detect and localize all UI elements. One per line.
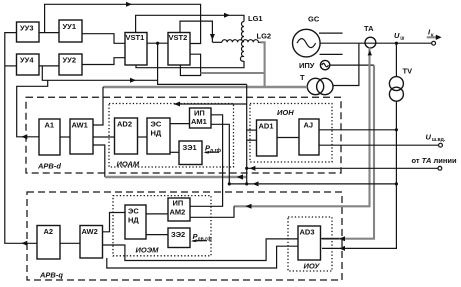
wire AJ out2 to terminal Ush.vd [319,133,446,148]
svg-text:AJ: AJ [304,121,314,130]
svg-text:УУ2: УУ2 [63,56,77,65]
inductor LG1 [240,14,262,61]
svg-text:TV: TV [403,67,413,76]
svg-text:ИОАМ: ИОАМ [117,160,140,169]
block AD2 [115,118,138,154]
block VST1 [125,33,147,66]
dotted box IOAM [109,104,234,169]
wire IOAM riser [245,84,248,183]
label P dv.gf [191,232,212,243]
wire AJ out1 to TV line [319,128,398,131]
wire AM1 riser A to AM2 [190,115,223,207]
node Ush [394,31,404,45]
current transformer TA [364,24,376,48]
wire VST1 to VST2 [147,42,168,45]
wire A1 to AW1 [60,136,70,138]
svg-text:УУ1: УУ1 [63,22,77,31]
svg-text:УУ4: УУ4 [20,56,34,65]
arrow into A2 [21,241,27,246]
transformer T [300,73,333,95]
svg-text:ш.вд.: ш.вд. [432,137,446,143]
svg-text:AW1: AW1 [72,121,88,130]
block UU2 [59,54,82,75]
wire T primary bus (gray) [103,86,307,89]
wire AD2 to ESND [138,136,148,138]
svg-text:УУ3: УУ3 [20,24,34,33]
wire VST2 top to LG2 [180,21,222,42]
wire TA secondary (gray) [234,48,372,207]
svg-text:от ТА линии: от ТА линии [412,156,457,165]
wire left bus [5,33,37,244]
svg-text:ЗЭ2: ЗЭ2 [171,230,185,239]
block ZE1 [179,141,202,165]
svg-text:ЭС: ЭС [128,207,139,216]
svg-text:ИП: ИП [173,199,184,208]
wire UU4 branch down [42,66,157,83]
GC stator leads [319,33,343,54]
svg-text:LG1: LG1 [248,14,263,23]
wire left bus to UU4, UU4 to UU2 [5,65,59,67]
block ZE2 [168,228,190,248]
svg-text:дв.гф: дв.гф [198,236,213,243]
wire ot TA linii [247,156,457,171]
wire junction down to T bus [158,43,247,84]
svg-text:AD1: AD1 [259,122,274,131]
arrow TA wire to AD3 [321,236,346,241]
svg-text:ТА: ТА [364,24,374,33]
svg-text:ИОЭМ: ИОЭМ [136,246,160,255]
wire VST1 top to LG1 [136,13,244,33]
wire LG2 right down (gray) [261,42,265,87]
wire IPU output [330,64,374,66]
svg-text:АМ2: АМ2 [170,208,186,217]
wire AW1 to AD2 [93,136,115,138]
block IP-AM2 [168,198,190,221]
wire TV riser [322,43,396,251]
label P d.gf [204,144,222,155]
svg-text:Т: Т [300,73,305,82]
wire A2 to AW2 [60,242,80,244]
dotted box ION [250,104,332,163]
label Ik with arrow [427,28,442,41]
wire riser to AD1 inputs [247,130,257,140]
wire AW1 riser to T bus [93,87,103,125]
svg-text:U: U [426,133,432,142]
svg-text:А1: А1 [45,121,55,130]
wire AW2 up to ESND2 [103,213,126,232]
block UU1 [59,20,82,42]
svg-text:А2: А2 [44,227,54,236]
svg-text:LG2: LG2 [257,32,272,41]
pilot exciter IPU [299,60,330,70]
svg-text:U: U [394,31,400,40]
block AJ [299,119,319,155]
svg-text:ИПУ: ИПУ [299,61,315,70]
wire VST2 right lower loop [180,54,200,75]
voltage transformer TV [389,67,412,102]
wire top feed to VST2 [45,2,201,44]
wire ESND to AM1 [170,123,190,125]
block VST2 [168,33,190,66]
dashed box ARV-q [27,192,342,280]
wire UU2 to VST1 [82,58,125,65]
svg-text:ИОУ: ИОУ [304,262,321,271]
wire AW1 lower pin to gray feedback bus [93,145,247,180]
wire AW2 mid to AD3 in1 [103,239,299,261]
svg-text:АМ1: АМ1 [191,117,207,126]
wire main generator bus [320,41,435,45]
dotted box IOEM [113,196,211,256]
svg-text:ЭС: ЭС [151,120,162,129]
svg-text:GC: GC [308,15,320,24]
wire TV secondary to AM1 [228,181,398,186]
dashed box ARV-d [26,97,341,173]
wire AM1 riser B [211,124,229,184]
block UU4 [17,54,40,75]
wire UU1 to VST1 [82,34,125,44]
wire ESND2 to ZE2 [146,234,168,236]
svg-text:VST2: VST2 [169,33,188,42]
generator GC [293,15,321,57]
block A2 [37,226,60,260]
svg-text:AD3: AD3 [300,228,315,237]
wire LG1 bottom to VST1 bottom [136,61,244,68]
block ESND2 [125,205,146,239]
wire T right to main bus [333,43,359,85]
wire UU3 to UU1 [39,32,59,34]
svg-text:ИОН: ИОН [277,108,294,117]
wire IPU drop to AD3 (gray) [322,65,374,238]
block AW1 [70,119,93,154]
svg-text:AW2: AW2 [82,227,98,236]
arrow TA wire to AM2 [190,204,252,218]
svg-text:НД: НД [151,129,162,138]
svg-text:НД: НД [128,216,139,225]
wire AW2 bottom to AD3 in2 [107,246,298,268]
block UU3 [17,22,40,42]
svg-text:ш: ш [400,35,404,41]
wire IOAM top arrow [174,102,247,107]
svg-text:АРВ-q: АРВ-q [39,271,63,280]
svg-text:ЗЭ1: ЗЭ1 [183,143,197,152]
svg-text:AD2: AD2 [117,120,132,129]
dotted box IOU [288,217,332,271]
block ESND1 [147,118,170,154]
block AW2 [80,226,103,259]
block IP-AM1 [190,108,212,128]
svg-text:АРВ-d: АРВ-d [37,162,61,171]
svg-text:д.гф: д.гф [210,147,222,154]
wire VST2 node to LG2 drop (gray) [201,72,265,74]
block A1 [39,119,60,155]
block AD3 [298,226,321,260]
block AD1 [257,120,278,156]
inductor LG2 [222,32,271,43]
wire ESND to ZE1 [170,151,179,153]
wire ESND2 to AM2 [146,213,168,215]
wire A1 feedback [17,80,48,139]
svg-text:VST1: VST1 [126,33,145,42]
wire AD1 to AJ [277,137,299,139]
